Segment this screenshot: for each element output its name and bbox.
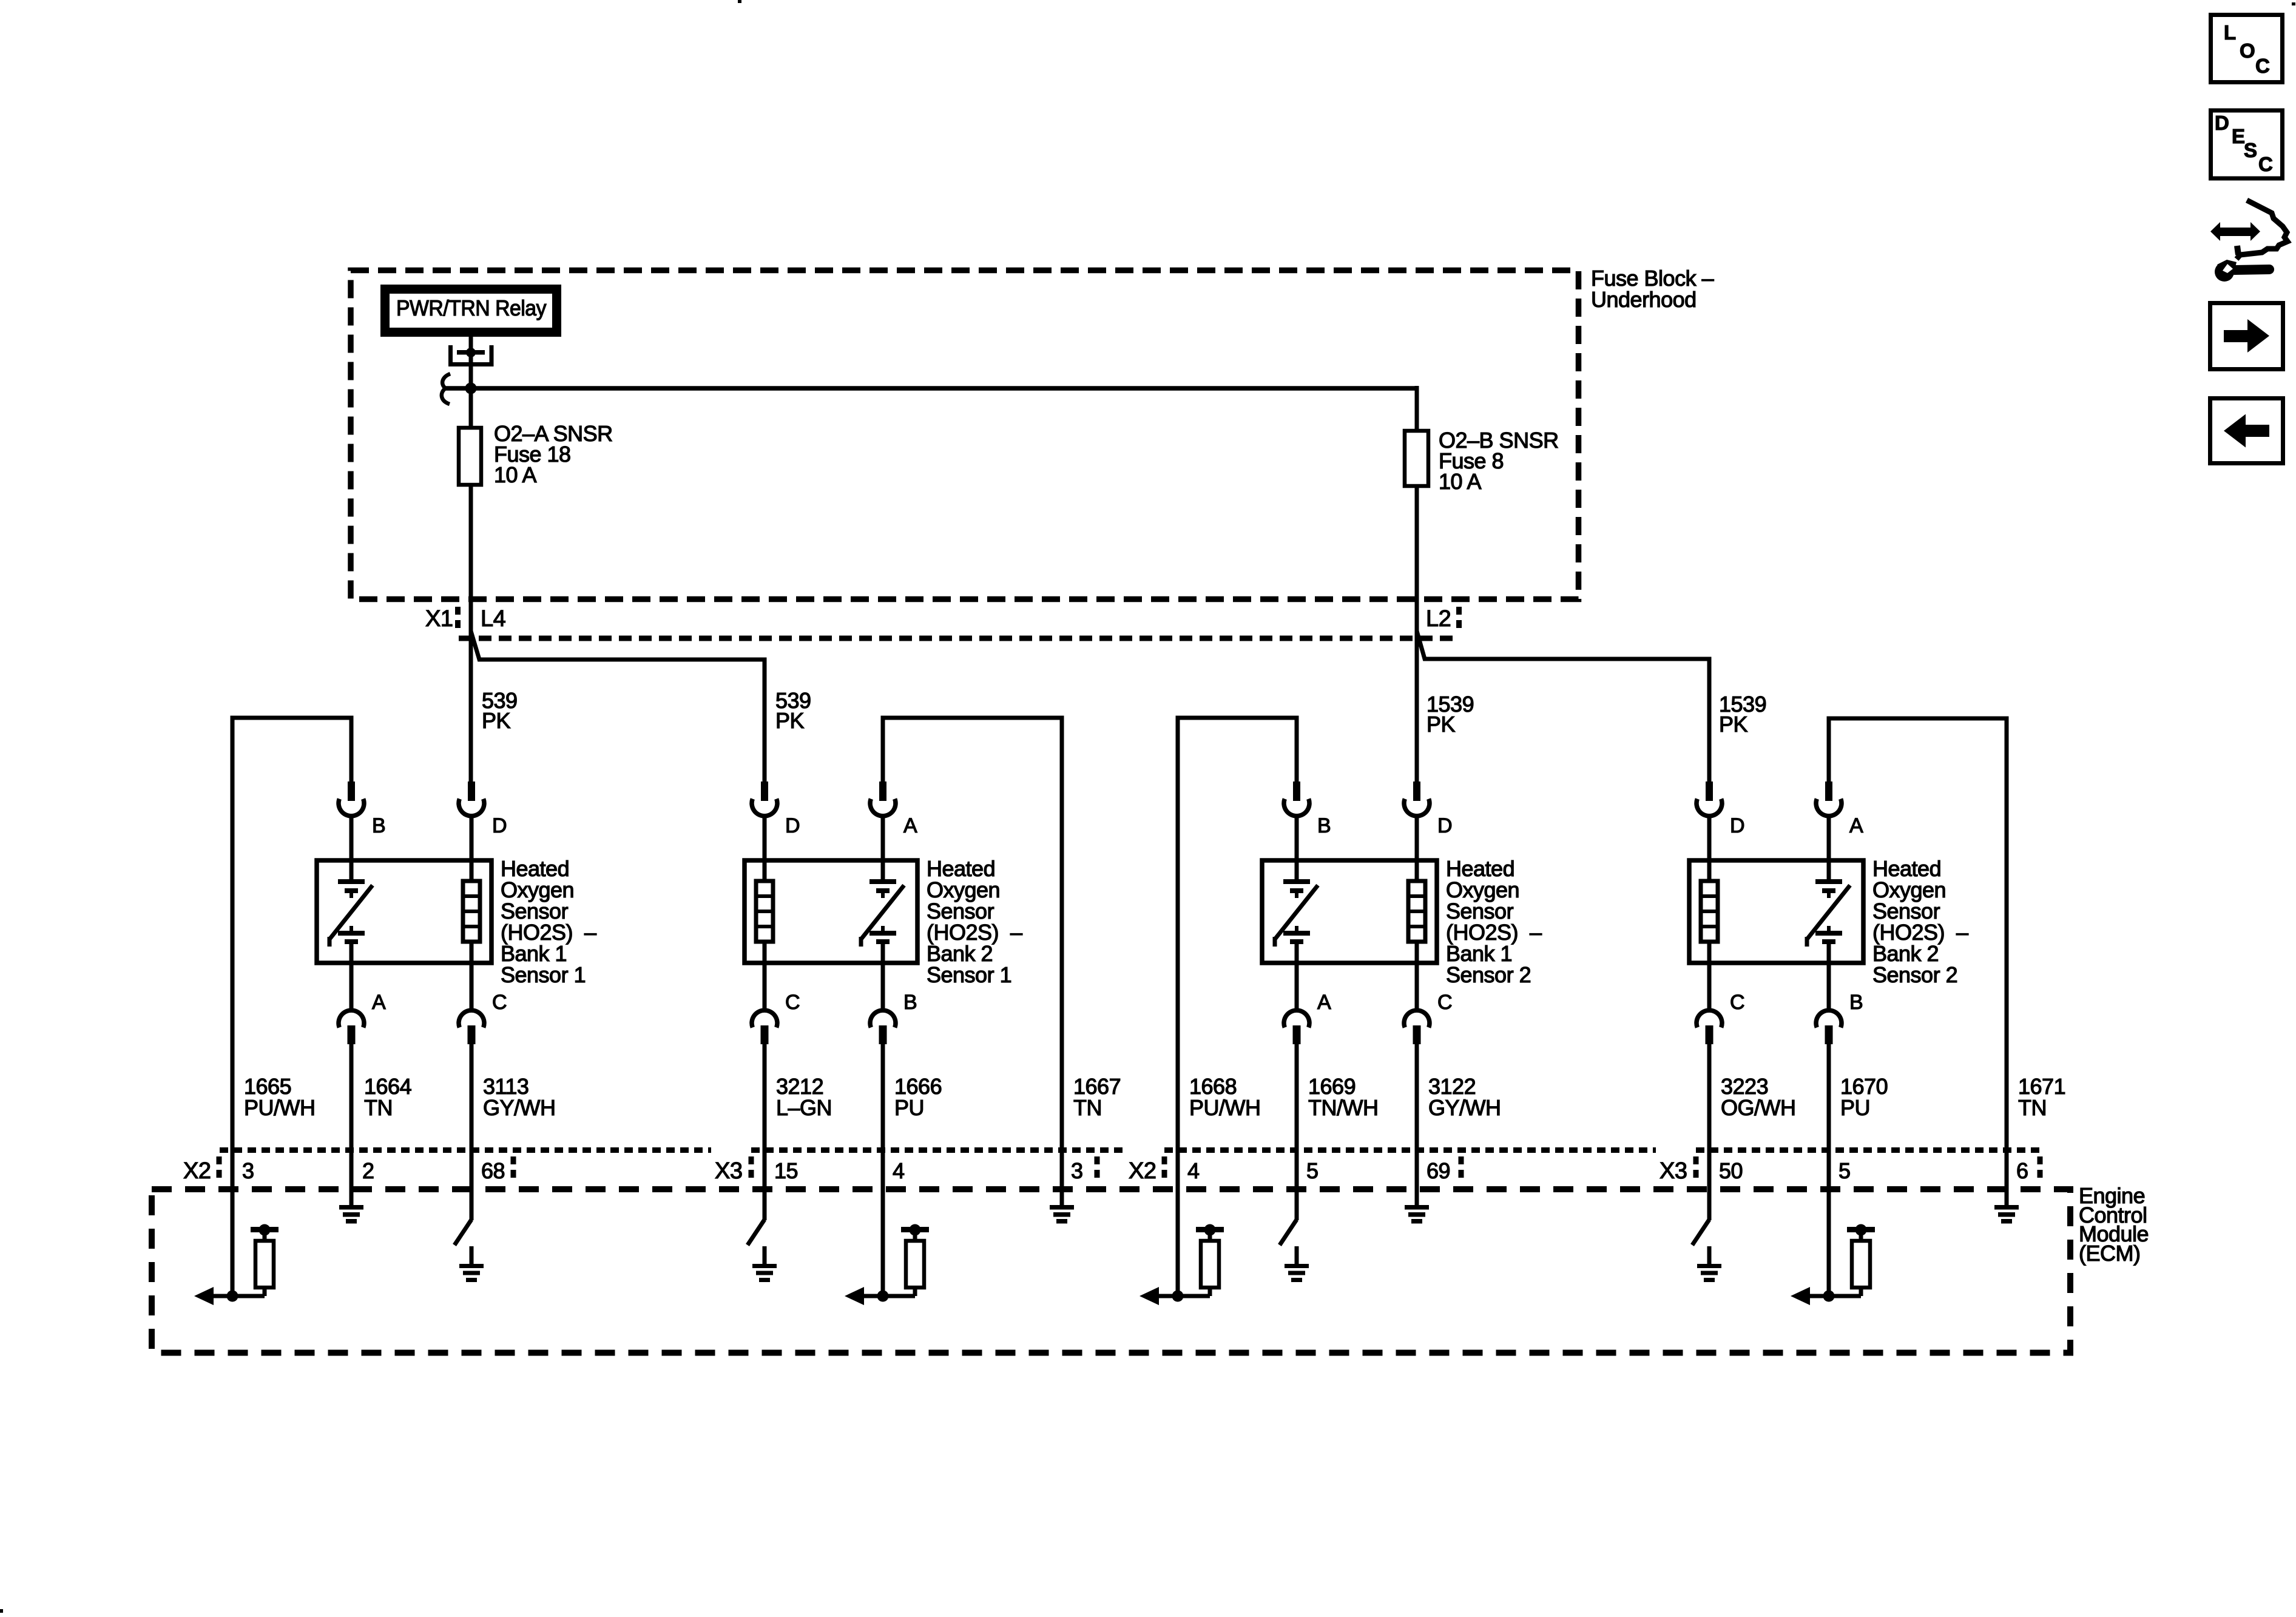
- wire: [1707, 960, 1712, 1012]
- wire 1539 PK branch to HO2S B2S2: [1417, 631, 1709, 786]
- svg-text:PU/WH: PU/WH: [244, 1095, 316, 1120]
- HO2S Bank 1 Sensor 2 box: [1262, 860, 1437, 963]
- connector pin C (bottom): [1404, 1010, 1430, 1044]
- wire: [349, 960, 354, 1012]
- svg-text:4: 4: [1187, 1158, 1200, 1183]
- svg-text:Sensor 1: Sensor 1: [501, 962, 586, 987]
- svg-text:PK: PK: [1427, 712, 1456, 737]
- oxygen sensor cell element: [861, 860, 904, 963]
- wire: [470, 960, 474, 1012]
- ECM connector dotted line segment 3: [1164, 1147, 1656, 1153]
- HO2S label Bank 2 Sensor 2: [1872, 856, 1968, 987]
- wire: [881, 816, 885, 863]
- fuse F8 O2-B SNSR: [1405, 431, 1428, 486]
- svg-text:B: B: [1317, 814, 1331, 837]
- wire: [763, 960, 767, 1012]
- wire label 1667 TN: [1073, 1074, 1121, 1120]
- wire label 1539 PK (1): [1427, 692, 1474, 737]
- fuse F18 label: [494, 421, 613, 487]
- svg-text:3: 3: [1071, 1158, 1083, 1183]
- svg-text:D: D: [785, 814, 800, 837]
- svg-text:L2: L2: [1426, 606, 1451, 632]
- svg-text:L–GN: L–GN: [776, 1095, 832, 1120]
- connector pin A (top): [870, 781, 896, 816]
- heater driver switch pin 5: [1280, 1191, 1309, 1282]
- svg-text:X2: X2: [183, 1158, 211, 1184]
- svg-text:B: B: [1849, 991, 1863, 1014]
- bus wire from relay to fuses: [445, 386, 1417, 391]
- svg-text:A: A: [1849, 814, 1863, 837]
- ECM connector dotted line segment 1: [220, 1147, 711, 1153]
- heater driver switch pin 68: [454, 1191, 484, 1282]
- svg-text:6: 6: [2016, 1158, 2028, 1183]
- svg-text:PK: PK: [1719, 712, 1748, 737]
- svg-text:S: S: [2244, 139, 2257, 161]
- ground (ECM pin 3): [1050, 1191, 1074, 1224]
- wire label 1670 PU: [1840, 1074, 1888, 1120]
- wire: [1827, 816, 1831, 863]
- svg-text:TN: TN: [2018, 1095, 2047, 1120]
- wire 1669 TN/WH: [1295, 1044, 1299, 1220]
- svg-text:3: 3: [242, 1158, 254, 1183]
- ECM sense circuit pin 3: [194, 1224, 279, 1306]
- svg-text:Sensor 2: Sensor 2: [1872, 962, 1957, 987]
- icon DESC button: [2211, 110, 2283, 178]
- svg-text:D: D: [2215, 112, 2229, 134]
- wire relay output: [469, 336, 473, 389]
- connector pin A (bottom): [339, 1010, 364, 1044]
- svg-text:D: D: [492, 814, 507, 837]
- svg-text:Underhood: Underhood: [1591, 287, 1697, 312]
- wire label 3122 GY/WH: [1428, 1074, 1501, 1120]
- heater element: [1701, 860, 1718, 963]
- connector pin C (bottom): [459, 1010, 484, 1044]
- svg-text:O: O: [2240, 39, 2255, 62]
- wire 1666 PU: [881, 1044, 885, 1296]
- ground (ECM pin 69): [1405, 1191, 1429, 1224]
- connector pin C (bottom): [752, 1010, 777, 1044]
- svg-text:50: 50: [1719, 1158, 1743, 1183]
- wire bus corner down to fuse F8 and L2: [1415, 386, 1419, 786]
- svg-text:PU/WH: PU/WH: [1189, 1095, 1261, 1120]
- wire: [349, 816, 354, 863]
- svg-text:X3: X3: [715, 1158, 742, 1184]
- svg-text:D: D: [1730, 814, 1744, 837]
- svg-text:69: 69: [1427, 1158, 1450, 1183]
- svg-text:C: C: [2258, 153, 2272, 175]
- underhood connector dotted line: [459, 636, 1456, 641]
- wire label 539 PK (1): [482, 688, 518, 733]
- svg-text:PWR/TRN Relay: PWR/TRN Relay: [396, 295, 546, 320]
- svg-text:PK: PK: [775, 708, 805, 733]
- icon next arrow button: [2210, 303, 2283, 370]
- ground (ECM pin 6): [1994, 1191, 2019, 1224]
- svg-text:5: 5: [1838, 1158, 1851, 1183]
- svg-text:C: C: [785, 991, 800, 1014]
- HO2S label Bank 1 Sensor 2: [1446, 856, 1542, 987]
- svg-text:A: A: [372, 991, 386, 1014]
- svg-text:10 A: 10 A: [494, 462, 537, 487]
- svg-text:B: B: [372, 814, 385, 837]
- svg-text:OG/WH: OG/WH: [1721, 1095, 1795, 1120]
- wire 3212 L-GN: [763, 1044, 767, 1220]
- splice hook symbol: [442, 374, 450, 404]
- svg-text:TN: TN: [1073, 1095, 1102, 1120]
- icon back arrow button: [2210, 399, 2283, 464]
- wire 1664 TN: [349, 1044, 354, 1206]
- wire label 1539 PK (2): [1719, 692, 1766, 737]
- connector separator: [511, 1156, 516, 1180]
- wire label 1669 TN/WH: [1308, 1074, 1378, 1120]
- wire 3223 OG/WH: [1707, 1044, 1712, 1220]
- svg-text:PU: PU: [894, 1095, 924, 1120]
- wire label 1664 TN: [364, 1074, 411, 1120]
- connector pin B (bottom): [1816, 1010, 1842, 1044]
- heater driver switch pin 50: [1692, 1191, 1721, 1282]
- speck: [2292, 2, 2295, 5]
- HO2S Bank 2 Sensor 2 box: [1689, 860, 1863, 963]
- heater element: [1408, 860, 1425, 963]
- wire label 1666 PU: [894, 1074, 942, 1120]
- wire: [1707, 816, 1712, 863]
- ECM connector dotted line segment 4: [1696, 1147, 2040, 1153]
- svg-text:10 A: 10 A: [1439, 469, 1482, 494]
- connector pin C (bottom): [1697, 1010, 1722, 1044]
- icon LOC button: [2211, 15, 2283, 83]
- wire: [1295, 816, 1299, 863]
- svg-text:(ECM): (ECM): [2079, 1241, 2140, 1266]
- svg-text:15: 15: [774, 1158, 798, 1183]
- svg-text:C: C: [2255, 55, 2269, 77]
- wire 1671 TN (pin A box4 to ECM): [1829, 718, 2007, 1206]
- wire: [1415, 960, 1419, 1012]
- connector separator: [1693, 1156, 1699, 1180]
- heater element: [463, 860, 480, 963]
- engine control module ECM (dashed box): [152, 1189, 2070, 1353]
- connector L2 separator: [1456, 607, 1462, 631]
- fuse F18 O2-A SNSR: [459, 428, 481, 485]
- wire 1667 TN (pin A box2 to ECM): [883, 718, 1062, 1206]
- wire: [1415, 816, 1419, 863]
- connector pin D (top): [752, 781, 777, 816]
- bus junction node: [465, 383, 477, 394]
- relay PWR/TRN Relay: [385, 289, 557, 333]
- wire: [1295, 960, 1299, 1012]
- svg-text:X3: X3: [1660, 1158, 1687, 1184]
- svg-text:PU: PU: [1840, 1095, 1870, 1120]
- heater driver switch pin 15: [748, 1191, 777, 1282]
- icon component view (arrows and wrench): [2210, 200, 2288, 282]
- wire label 3212 L–GN: [776, 1074, 832, 1120]
- svg-text:B: B: [903, 991, 917, 1014]
- speck: [738, 0, 741, 3]
- HO2S label Bank 2 Sensor 1: [927, 856, 1022, 987]
- wire: [881, 960, 885, 1012]
- relay contact symbol: [448, 345, 494, 366]
- fuse F8 label: [1439, 428, 1559, 494]
- svg-text:TN: TN: [364, 1095, 393, 1120]
- heater element: [756, 860, 773, 963]
- connector pin D (top): [459, 781, 484, 816]
- fuse block - underhood (dashed box): [351, 271, 1579, 599]
- svg-text:A: A: [903, 814, 917, 837]
- ECM label: [2079, 1183, 2149, 1266]
- connector pin A (bottom): [1284, 1010, 1309, 1044]
- svg-text:2: 2: [362, 1158, 374, 1183]
- ground (ECM pin 2): [339, 1191, 363, 1224]
- wire 539 PK branch to HO2S B2S1: [471, 631, 765, 786]
- wire 1670 PU: [1827, 1044, 1831, 1296]
- HO2S label Bank 1 Sensor 1: [501, 856, 596, 987]
- connector pin B (top): [1284, 781, 1309, 816]
- speck: [0, 1609, 3, 1613]
- wire 3113 GY/WH: [470, 1044, 474, 1220]
- svg-text:L4: L4: [481, 606, 506, 632]
- wire label 3113 GY/WH: [483, 1074, 556, 1120]
- svg-text:5: 5: [1306, 1158, 1319, 1183]
- wire: [1827, 960, 1831, 1012]
- svg-text:GY/WH: GY/WH: [483, 1095, 556, 1120]
- connector separator: [1459, 1156, 1464, 1180]
- svg-text:TN/WH: TN/WH: [1308, 1095, 1378, 1120]
- connector separator: [1162, 1156, 1167, 1180]
- connector separator: [217, 1156, 222, 1180]
- svg-text:Sensor 1: Sensor 1: [927, 962, 1011, 987]
- ECM connector dotted line segment 2: [751, 1147, 1125, 1153]
- wire label 1671 TN: [2018, 1074, 2065, 1120]
- svg-text:GY/WH: GY/WH: [1428, 1095, 1501, 1120]
- svg-text:68: 68: [481, 1158, 505, 1183]
- wire 1665 PU/WH (ECM pin3 to pin B): [232, 718, 351, 1296]
- svg-text:Sensor 2: Sensor 2: [1446, 962, 1531, 987]
- connector pin D (top): [1404, 781, 1430, 816]
- wire 1668 PU/WH (ECM to pin B box3): [1178, 718, 1297, 1296]
- svg-text:A: A: [1317, 991, 1331, 1014]
- svg-text:C: C: [1730, 991, 1744, 1014]
- svg-text:4: 4: [893, 1158, 905, 1183]
- oxygen sensor cell element: [329, 860, 373, 963]
- wire: [763, 816, 767, 863]
- oxygen sensor cell element: [1275, 860, 1318, 963]
- wire: [470, 816, 474, 863]
- connector pin B (bottom): [870, 1010, 896, 1044]
- svg-text:C: C: [492, 991, 507, 1014]
- wire label 539 PK (2): [775, 688, 811, 733]
- oxygen sensor cell element: [1807, 860, 1850, 963]
- ECM sense circuit pin 4: [845, 1224, 929, 1306]
- connector separator: [749, 1156, 754, 1180]
- ECM sense circuit pin 4b: [1140, 1224, 1224, 1306]
- svg-text:E: E: [2232, 125, 2245, 147]
- connector pin D (top): [1697, 781, 1722, 816]
- wire 3122 GY/WH: [1415, 1044, 1419, 1206]
- svg-text:X1: X1: [425, 606, 453, 632]
- connector separator: [1095, 1156, 1100, 1180]
- svg-text:X2: X2: [1129, 1158, 1156, 1184]
- svg-text:L: L: [2224, 21, 2236, 44]
- wire bus to fuse F18 and down to X1: [469, 388, 473, 786]
- connector X1 separator: [455, 607, 461, 631]
- svg-text:D: D: [1437, 814, 1452, 837]
- HO2S Bank 2 Sensor 1 box: [745, 860, 917, 963]
- svg-text:C: C: [1437, 991, 1452, 1014]
- wire label 1665 PU/WH: [244, 1074, 316, 1120]
- connector pin A (top): [1816, 781, 1842, 816]
- fuse block label: [1591, 266, 1714, 312]
- wire label 3223 OG/WH: [1721, 1074, 1795, 1120]
- wire label 1668 PU/WH: [1189, 1074, 1261, 1120]
- connector pin B (top): [339, 781, 364, 816]
- HO2S Bank 1 Sensor 1 box: [317, 860, 491, 963]
- svg-text:PK: PK: [482, 708, 511, 733]
- ECM sense circuit pin 5: [1791, 1224, 1875, 1306]
- connector separator: [2038, 1156, 2043, 1180]
